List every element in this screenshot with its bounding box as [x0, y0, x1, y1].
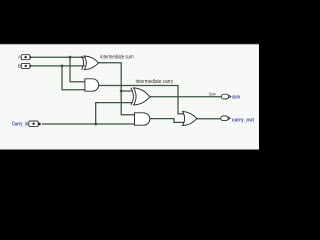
node carry_in junction	[94, 123, 97, 126]
wire carry_out output	[197, 118, 221, 120]
black letterbox top	[0, 0, 259, 44]
wire A	[32, 56, 85, 58]
letterbox soft edge bottom	[0, 149, 259, 152]
svg-text:sum: sum	[232, 95, 240, 101]
svg-text:carry_out: carry_out	[232, 117, 255, 123]
pin carry_out output	[221, 116, 230, 121]
wire sum output	[150, 96, 222, 98]
pin A input	[21, 55, 32, 60]
and gate U2	[85, 79, 99, 91]
node B junction	[61, 65, 64, 68]
wire carry_in branch to XOR2 lower input	[96, 103, 132, 124]
svg-text:Carry_in: Carry_in	[12, 121, 28, 127]
wire intermediate carry net AND1 to OR	[99, 86, 184, 114]
pin B input	[21, 63, 32, 68]
xor gate U1 intermediate sum	[82, 56, 99, 70]
wire carry_in net	[42, 123, 135, 125]
white canvas	[0, 44, 259, 149]
svg-text:Sum: Sum	[209, 91, 216, 96]
svg-text:B: B	[18, 63, 21, 68]
node intermediate sum junction	[120, 90, 123, 93]
wire B	[32, 65, 85, 67]
svg-text:intermediate sum: intermediate sum	[100, 55, 134, 61]
letterbox soft edge top	[0, 43, 259, 46]
pin Sum output	[221, 94, 230, 99]
wire branch to XOR2 upper input	[121, 90, 131, 92]
wire B branch to AND1	[62, 66, 85, 90]
and gate U4	[135, 113, 150, 125]
wire intermediate sum net	[99, 63, 135, 115]
node A junction	[69, 56, 72, 59]
black letterbox bottom	[0, 150, 259, 194]
svg-text:intermediate carry: intermediate carry	[136, 79, 174, 85]
wire A branch to AND1	[70, 57, 85, 81]
pin Carry_in input	[29, 121, 42, 126]
svg-text:A: A	[18, 55, 21, 60]
or gate U5 carry out	[183, 112, 197, 126]
wire AND2 output to OR	[150, 119, 184, 123]
xor gate U3 sum	[131, 88, 150, 105]
